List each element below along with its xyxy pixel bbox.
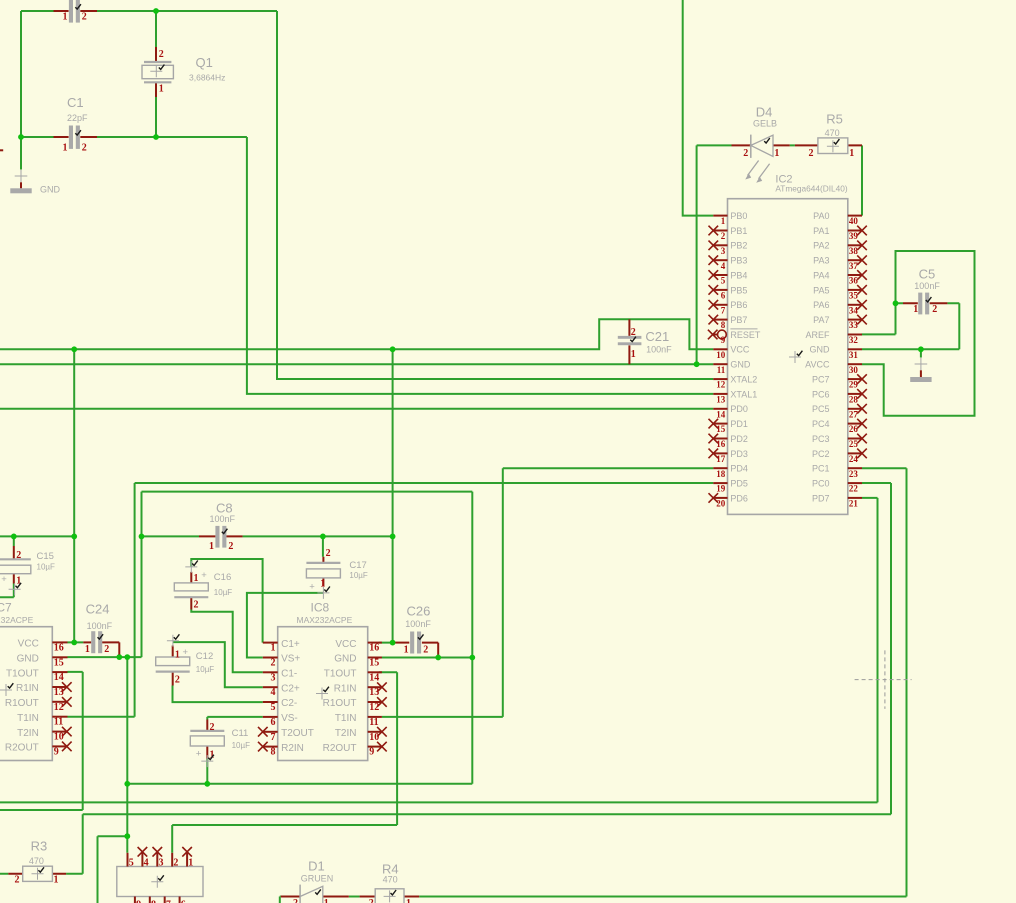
wire net XTAL1 column to IC2 pin 13 (247, 137, 713, 394)
capacitor C8 100nF (199, 500, 243, 552)
svg-text:1: 1 (54, 875, 59, 886)
svg-text:VS+: VS+ (281, 654, 300, 665)
wire net IC7 T1OUT down and off left edge (0, 672, 83, 810)
junction C8-L (139, 534, 145, 540)
svg-text:1: 1 (63, 142, 68, 153)
wire net AREF / AVCC / C5 box (862, 251, 975, 416)
svg-text:16: 16 (54, 642, 64, 653)
svg-text:1: 1 (271, 643, 276, 654)
svg-text:GND: GND (334, 654, 356, 665)
svg-text:GND: GND (730, 360, 751, 370)
svg-text:13: 13 (54, 687, 64, 698)
wire net R3 pins (0, 814, 83, 873)
svg-text:GND: GND (40, 185, 61, 195)
capacitor C15 10uF (0, 546, 55, 595)
wire net PD0 row to IC2 pin 14 (0, 408, 713, 410)
wire net C12 pin1 to IC8 C2+ (173, 642, 263, 687)
capacitor (top, cropped label) (54, 0, 98, 23)
svg-text:23: 23 (849, 469, 859, 479)
capacitor C26 100nF (395, 604, 438, 656)
svg-text:Q1: Q1 (196, 55, 213, 70)
svg-text:8: 8 (271, 747, 276, 758)
wire net GND drop (C1 row) (20, 137, 22, 170)
svg-text:D1: D1 (308, 859, 325, 874)
junction A (153, 8, 159, 14)
svg-text:2: 2 (173, 858, 178, 869)
svg-text:2: 2 (175, 674, 180, 685)
svg-text:2: 2 (809, 148, 814, 159)
svg-text:7: 7 (721, 305, 726, 315)
svg-text:2: 2 (293, 898, 298, 903)
svg-text:PB4: PB4 (730, 270, 747, 280)
junction VCC-4 (390, 534, 396, 540)
svg-text:40: 40 (849, 216, 859, 226)
wire net C16 pin1 to IC8 C1+ (191, 559, 262, 643)
svg-text:C5: C5 (919, 267, 936, 282)
svg-text:PD1: PD1 (730, 419, 748, 429)
svg-text:PB7: PB7 (730, 315, 747, 325)
svg-text:R1OUT: R1OUT (323, 698, 357, 709)
svg-text:14: 14 (369, 672, 379, 683)
svg-text:15: 15 (716, 424, 726, 434)
svg-text:35: 35 (849, 291, 859, 301)
svg-text:PB1: PB1 (730, 226, 747, 236)
svg-text:12: 12 (369, 702, 379, 713)
svg-text:+: + (201, 570, 207, 581)
svg-text:36: 36 (849, 276, 859, 286)
svg-text:2: 2 (228, 541, 233, 552)
junction C11-1 (204, 781, 210, 787)
wire net IC8 GND row (379, 657, 473, 659)
wire net crystal Q1 vertical links (155, 11, 157, 137)
svg-text:MAX232ACPE: MAX232ACPE (297, 615, 353, 625)
svg-text:PB2: PB2 (730, 241, 747, 251)
svg-text:1: 1 (175, 649, 180, 660)
wire net D1 cathode to bottom edge (280, 897, 281, 903)
svg-text:7: 7 (271, 732, 276, 743)
svg-text:R1OUT: R1OUT (5, 698, 39, 709)
svg-text:VCC: VCC (18, 639, 39, 650)
svg-text:470: 470 (825, 128, 840, 138)
svg-text:ATmega644(DIL40): ATmega644(DIL40) (775, 183, 847, 193)
junction GND31 (918, 346, 924, 352)
wire net D4 row segments (697, 144, 795, 146)
svg-text:2: 2 (369, 898, 374, 903)
wire net C8 row with C17 drop (142, 536, 393, 556)
svg-text:10µF: 10µF (37, 563, 56, 572)
svg-text:IC7: IC7 (0, 601, 12, 615)
svg-text:C1-: C1- (281, 669, 297, 680)
svg-text:1: 1 (849, 148, 854, 159)
svg-text:7: 7 (166, 900, 171, 903)
svg-text:2: 2 (932, 304, 937, 315)
wire net XTAL1 row through C1 (21, 136, 247, 138)
wire net C15 top row (0, 536, 74, 546)
svg-text:1: 1 (774, 148, 779, 159)
svg-text:2: 2 (210, 722, 215, 733)
ground (near C5/AVCC) (910, 358, 931, 382)
svg-text:PD6: PD6 (730, 493, 748, 503)
svg-text:2: 2 (326, 548, 331, 559)
svg-text:32: 32 (849, 335, 859, 345)
svg-text:15: 15 (369, 657, 379, 668)
svg-text:PC2: PC2 (812, 449, 830, 459)
capacitor C21 100nF (618, 319, 672, 364)
svg-text:2: 2 (82, 12, 87, 23)
svg-text:C2-: C2- (281, 698, 297, 709)
svg-text:5: 5 (271, 702, 276, 713)
svg-text:2: 2 (15, 875, 20, 886)
svg-text:MAX232ACPE: MAX232ACPE (0, 615, 34, 625)
svg-text:D4: D4 (756, 104, 773, 119)
resistor R3 470 (8, 839, 66, 886)
wire net PD4 to IC8 T1IN (382, 468, 713, 717)
junction IC7-VCC (71, 640, 77, 646)
junction C24-2 (116, 654, 122, 660)
svg-text:39: 39 (849, 231, 859, 241)
wire net C24/C26 pin2 tails (119, 654, 438, 658)
svg-text:4: 4 (271, 687, 276, 698)
svg-text:19: 19 (716, 484, 726, 494)
svg-text:10: 10 (716, 350, 726, 360)
junction VCC-3 (71, 534, 77, 540)
svg-text:PD4: PD4 (730, 464, 748, 474)
svg-text:25: 25 (849, 439, 859, 449)
svg-text:+: + (309, 581, 315, 592)
svg-text:XTAL2: XTAL2 (730, 374, 757, 384)
svg-text:VCC: VCC (730, 345, 750, 355)
svg-text:3: 3 (271, 672, 276, 683)
wire net PB0 from top edge to IC2 pin 1 (683, 0, 714, 216)
wire net R5 to PA0 column (861, 145, 863, 215)
svg-text:20: 20 (716, 499, 726, 509)
connector X1 (DB9, cropped) (117, 847, 203, 903)
wire net PD7 long route to left edge (0, 498, 878, 803)
svg-text:10: 10 (54, 732, 64, 743)
ground GND (near C1) (10, 170, 60, 195)
svg-text:9: 9 (369, 747, 374, 758)
svg-text:12: 12 (54, 702, 64, 713)
svg-text:2: 2 (423, 645, 428, 656)
svg-text:2: 2 (631, 327, 636, 338)
wire net GND pin31 row (862, 349, 959, 357)
svg-text:PA0: PA0 (813, 211, 829, 221)
svg-text:13: 13 (369, 687, 379, 698)
capacitor C12 10uF (156, 634, 215, 685)
wire net C15 pin1 off left edge (0, 584, 14, 598)
svg-text:R1IN: R1IN (334, 683, 357, 694)
svg-text:2: 2 (82, 142, 87, 153)
svg-text:PB3: PB3 (730, 256, 747, 266)
svg-text:16: 16 (369, 643, 379, 654)
svg-text:9: 9 (721, 335, 726, 345)
svg-text:AREF: AREF (805, 330, 830, 340)
svg-text:XTAL1: XTAL1 (730, 389, 757, 399)
junction VCC-2 (390, 346, 396, 352)
svg-text:+: + (1, 574, 7, 585)
svg-text:PC4: PC4 (812, 419, 830, 429)
svg-text:30: 30 (849, 365, 859, 375)
svg-text:22pF: 22pF (67, 113, 88, 123)
svg-text:11: 11 (54, 717, 63, 728)
wire net PC1 to R4 route (419, 468, 906, 896)
svg-text:PC0: PC0 (812, 478, 830, 488)
wire net PC0 to R3 long route (83, 483, 891, 814)
svg-text:T1OUT: T1OUT (324, 669, 357, 680)
svg-text:C1+: C1+ (281, 639, 300, 650)
svg-text:GND: GND (810, 345, 831, 355)
svg-text:470: 470 (29, 856, 44, 866)
wire net GND column to connector pin 5 (126, 657, 128, 853)
svg-text:VS-: VS- (281, 713, 298, 724)
svg-text:PD0: PD0 (730, 404, 748, 414)
svg-text:1: 1 (721, 216, 726, 226)
sheet crosshair (dashed) (855, 650, 912, 709)
svg-text:PC5: PC5 (812, 404, 830, 414)
svg-text:C15: C15 (37, 551, 54, 562)
svg-text:14: 14 (54, 672, 64, 683)
svg-text:PD3: PD3 (730, 449, 748, 459)
svg-text:1: 1 (63, 12, 68, 23)
svg-text:C21: C21 (645, 329, 669, 344)
svg-text:2: 2 (743, 148, 748, 159)
svg-text:+: + (183, 647, 189, 658)
svg-text:34: 34 (849, 305, 859, 315)
svg-text:RESET: RESET (730, 330, 761, 340)
svg-text:R2OUT: R2OUT (323, 743, 357, 754)
svg-text:10µF: 10µF (349, 571, 368, 580)
svg-text:GRUEN: GRUEN (301, 873, 334, 883)
svg-text:PA2: PA2 (813, 241, 829, 251)
svg-text:C26: C26 (407, 604, 431, 619)
svg-text:27: 27 (849, 409, 859, 419)
LED D1 GRUEN (281, 859, 349, 903)
capacitor C16 10uF (174, 561, 232, 611)
svg-text:10µF: 10µF (196, 665, 215, 674)
svg-text:470: 470 (383, 874, 398, 884)
wire net C12 pin2 to IC8 C2- (173, 686, 263, 703)
svg-text:1: 1 (85, 644, 90, 655)
svg-text:28: 28 (849, 395, 859, 405)
cropped stub at left edge (0, 149, 3, 151)
junction GND-D4 (694, 361, 700, 367)
wire net C11 pin1 down to GND bus (206, 759, 208, 784)
svg-text:14: 14 (716, 409, 726, 419)
wire net D4 cathode down to GND row (696, 145, 698, 364)
wire net C17 pin1 to IC8 VS+ (247, 593, 324, 658)
svg-text:13: 13 (716, 395, 726, 405)
junction VCC-1 (71, 346, 77, 352)
svg-text:9: 9 (54, 746, 59, 757)
svg-text:PA6: PA6 (813, 300, 829, 310)
svg-text:10µF: 10µF (214, 588, 233, 597)
wire net C11 pin2 to IC8 VS- (207, 717, 262, 720)
svg-text:C17: C17 (349, 560, 366, 571)
svg-text:R2OUT: R2OUT (5, 743, 39, 754)
wire net IC7 GND row (68, 656, 142, 658)
wire net VCC column to IC8 pin 16 (379, 349, 396, 642)
svg-text:VCC: VCC (335, 639, 356, 650)
resistor R4 470 (360, 862, 420, 903)
svg-text:1: 1 (631, 349, 636, 360)
svg-text:17: 17 (716, 454, 726, 464)
svg-text:6: 6 (721, 291, 726, 301)
svg-text:3: 3 (159, 858, 164, 869)
svg-text:5: 5 (129, 858, 134, 869)
svg-text:2: 2 (194, 600, 199, 611)
svg-text:R1IN: R1IN (16, 683, 39, 694)
svg-text:R3: R3 (31, 839, 48, 854)
junction IC8-VCC (390, 640, 396, 646)
wire net connector pin2 to IC8 T1OUT (172, 672, 397, 853)
junction C5-1 (893, 300, 899, 306)
svg-text:21: 21 (849, 499, 859, 509)
svg-text:PD5: PD5 (730, 478, 748, 488)
svg-text:T2IN: T2IN (17, 728, 39, 739)
svg-text:GELB: GELB (753, 119, 777, 129)
wire net C16 pin2 to IC8 C1- (191, 610, 262, 673)
IC U/IC8 MAX232ACPE (258, 601, 387, 761)
wire net VCC main row with C21 jog to IC2 pin 10 (0, 319, 713, 349)
svg-text:5: 5 (721, 276, 726, 286)
svg-text:1: 1 (913, 304, 918, 315)
wire net D1 to R4 link (349, 896, 360, 898)
svg-text:8: 8 (721, 320, 726, 330)
junction SPUR (124, 833, 130, 839)
svg-text:T1IN: T1IN (335, 713, 357, 724)
svg-text:4: 4 (721, 261, 726, 271)
svg-text:C16: C16 (214, 572, 231, 583)
svg-text:100nF: 100nF (646, 344, 672, 354)
svg-text:12: 12 (716, 380, 726, 390)
svg-text:2: 2 (16, 550, 21, 561)
svg-text:6: 6 (271, 717, 276, 728)
svg-text:31: 31 (849, 350, 859, 360)
svg-text:C11: C11 (232, 728, 249, 739)
svg-text:18: 18 (716, 469, 726, 479)
svg-text:1: 1 (404, 645, 409, 656)
svg-text:+: + (196, 749, 202, 760)
svg-text:PB6: PB6 (730, 300, 747, 310)
svg-text:8: 8 (151, 900, 156, 903)
svg-text:R2IN: R2IN (281, 743, 304, 754)
svg-text:15: 15 (54, 657, 64, 668)
svg-text:100nF: 100nF (405, 619, 431, 629)
svg-text:T1IN: T1IN (17, 713, 39, 724)
svg-text:T2IN: T2IN (335, 728, 357, 739)
svg-text:PD2: PD2 (730, 434, 748, 444)
resistor R5 470 (795, 112, 862, 159)
capacitor C5 100nF (903, 267, 947, 316)
svg-text:10: 10 (369, 732, 379, 743)
svg-text:100nF: 100nF (914, 281, 940, 291)
svg-text:37: 37 (849, 261, 859, 271)
svg-text:C12: C12 (196, 651, 213, 662)
svg-text:T1OUT: T1OUT (6, 668, 39, 679)
svg-text:PC7: PC7 (812, 374, 830, 384)
svg-text:6: 6 (181, 900, 186, 903)
svg-text:38: 38 (849, 246, 859, 256)
junction BUS-W (124, 781, 130, 787)
capacitor C24 100nF (83, 601, 119, 655)
wire net GND bus row (127, 783, 472, 785)
wire net XTAL2 right column to IC2 pin 12 (277, 11, 713, 379)
wire net GND row to IC2 pin 11 (0, 363, 713, 365)
svg-text:11: 11 (717, 365, 726, 375)
svg-text:3,6864Hz: 3,6864Hz (189, 73, 225, 83)
svg-text:GND: GND (17, 653, 39, 664)
wire net GND spur to bottom edge (98, 836, 128, 903)
svg-text:PC6: PC6 (812, 389, 830, 399)
svg-text:1: 1 (406, 898, 411, 903)
junction C17 (320, 534, 326, 540)
IC U/IC7 MAX232ACPE (cropped) (0, 601, 72, 761)
svg-text:1: 1 (188, 858, 193, 869)
svg-text:9: 9 (136, 900, 141, 903)
IC U/IC2 ATmega644(DIL40) (708, 174, 867, 515)
wire net PD5 to IC7 T1IN (68, 483, 714, 717)
svg-text:26: 26 (849, 424, 859, 434)
crystal Q1 3,6864Hz (142, 47, 225, 97)
svg-text:2: 2 (159, 49, 164, 60)
svg-text:PA1: PA1 (813, 226, 829, 236)
capacitor C17 10uF (306, 548, 368, 599)
svg-text:T2OUT: T2OUT (281, 728, 314, 739)
svg-text:C2+: C2+ (281, 683, 300, 694)
wire net C5 links (896, 303, 960, 349)
svg-text:10µF: 10µF (232, 741, 251, 750)
capacitor C11 10uF (190, 720, 250, 768)
svg-text:2: 2 (721, 231, 726, 241)
svg-text:1: 1 (320, 579, 325, 590)
svg-text:22: 22 (849, 484, 859, 494)
svg-text:PD7: PD7 (812, 493, 830, 503)
svg-text:AVCC: AVCC (805, 360, 830, 370)
svg-text:PC1: PC1 (812, 464, 830, 474)
svg-text:1: 1 (324, 898, 329, 903)
svg-text:R5: R5 (826, 112, 843, 127)
svg-text:2: 2 (104, 644, 109, 655)
svg-text:PB0: PB0 (730, 211, 747, 221)
svg-text:1: 1 (194, 573, 199, 584)
svg-text:16: 16 (716, 439, 726, 449)
svg-text:C24: C24 (86, 601, 110, 616)
svg-text:PA5: PA5 (813, 285, 829, 295)
svg-text:PA7: PA7 (813, 315, 829, 325)
capacitor C1 22pF (54, 95, 98, 153)
svg-text:PA3: PA3 (813, 256, 829, 266)
svg-text:PC3: PC3 (812, 434, 830, 444)
junction C (153, 134, 159, 140)
svg-text:1: 1 (209, 541, 214, 552)
svg-text:33: 33 (849, 320, 859, 330)
svg-text:C1: C1 (67, 95, 84, 110)
junction GNDCOL (124, 654, 130, 660)
wire net GND bridge box IC7-IC8 (142, 492, 473, 784)
junction B (18, 134, 24, 140)
svg-text:100nF: 100nF (87, 621, 113, 631)
svg-text:PA4: PA4 (813, 270, 829, 280)
junction C26-2 (435, 655, 441, 661)
svg-text:29: 29 (849, 380, 859, 390)
svg-text:24: 24 (849, 454, 859, 464)
junction IC8-GND (469, 655, 475, 661)
svg-text:2: 2 (271, 657, 276, 668)
junction C15 (11, 534, 17, 540)
wire net XTAL2 top row + left drop to GND (21, 11, 277, 170)
svg-text:IC8: IC8 (311, 601, 330, 615)
svg-text:100nF: 100nF (210, 514, 236, 524)
